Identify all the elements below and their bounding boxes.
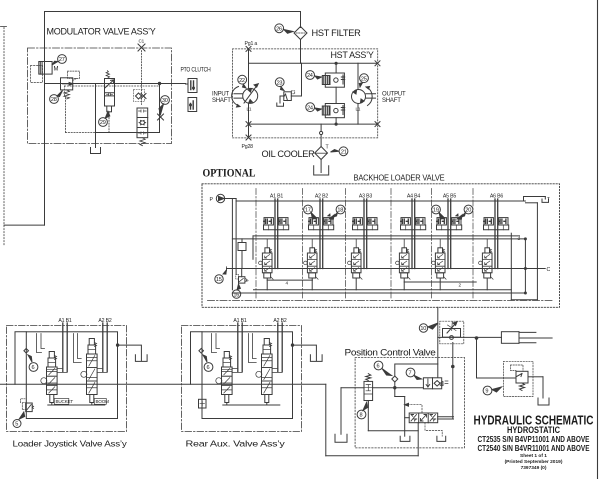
svg-text:7397349 (0): 7397349 (0) bbox=[521, 465, 547, 471]
wire pump feed left vertical bbox=[231, 199, 233, 290]
page right border bbox=[597, 1, 599, 479]
control spool at x=51 bbox=[49, 352, 54, 359]
relief valve 9 bbox=[504, 361, 534, 396]
wire vertical x525 bbox=[524, 239, 526, 293]
svg-text:HST FILTER: HST FILTER bbox=[312, 28, 361, 39]
wire to tank loader bbox=[118, 345, 142, 360]
svg-text:A2 B2: A2 B2 bbox=[98, 318, 111, 324]
tank left bbox=[340, 388, 342, 435]
item 7 callout bbox=[406, 368, 415, 377]
tank rear aux right bbox=[310, 355, 322, 362]
loader joystick valve assembly box bbox=[7, 326, 127, 432]
svg-text:A3 B3: A3 B3 bbox=[359, 194, 372, 200]
svg-text:24: 24 bbox=[307, 73, 313, 79]
svg-text:C1: C1 bbox=[139, 39, 145, 44]
item 6 callout bbox=[374, 361, 383, 370]
main wire y83 bbox=[45, 83, 186, 85]
wire feed to cylinder bbox=[438, 336, 502, 338]
svg-text:A1 B1: A1 B1 bbox=[270, 194, 283, 200]
spool at x=356 bbox=[354, 248, 359, 253]
svg-text:BOOM: BOOM bbox=[96, 399, 110, 404]
filter diamond bbox=[294, 27, 307, 40]
spool at x=404 bbox=[402, 248, 407, 253]
input pump 22 bbox=[243, 88, 258, 103]
tank under main valve right bbox=[437, 436, 446, 441]
valve 23 bbox=[275, 78, 284, 87]
svg-text:A1 B1: A1 B1 bbox=[58, 318, 71, 324]
svg-text:M: M bbox=[54, 67, 59, 73]
svg-text:A4 B4: A4 B4 bbox=[407, 194, 420, 200]
svg-text:(Printed September 2019): (Printed September 2019) bbox=[505, 459, 563, 465]
wire pressure rail y200 bbox=[236, 200, 525, 202]
frame wire to page left bbox=[4, 224, 44, 226]
dashed pilot top bbox=[405, 405, 422, 413]
port line A2 rear aux bbox=[277, 323, 279, 372]
port line B2 loader bbox=[106, 323, 108, 372]
item 8 callout bbox=[357, 410, 366, 419]
valve 30 bbox=[137, 108, 148, 138]
right pilot double line bbox=[438, 416, 454, 418]
item 18 bbox=[336, 205, 345, 214]
wire pilot line y387 bbox=[341, 387, 364, 389]
wire feed to flow control bbox=[437, 307, 439, 377]
port line B1 rear aux bbox=[241, 323, 243, 372]
wire rail y289 bbox=[254, 289, 512, 291]
wires around 7 bbox=[452, 343, 454, 367]
dotted collector line bbox=[66, 132, 96, 134]
wire to tank rear aux bbox=[293, 345, 317, 360]
port line A2 loader bbox=[102, 323, 104, 372]
left dotted vertical line bbox=[3, 28, 5, 246]
svg-text:17: 17 bbox=[305, 208, 311, 214]
circle 30 bbox=[161, 96, 170, 105]
circle 28 bbox=[50, 95, 59, 104]
svg-text:T: T bbox=[326, 145, 330, 151]
circle 26 bbox=[275, 24, 284, 33]
port line A1 rear aux bbox=[237, 323, 239, 372]
check valve block top 24 bbox=[306, 71, 315, 80]
tank under main valve left bbox=[400, 436, 410, 441]
svg-text:T: T bbox=[547, 196, 550, 201]
wire pump feed second vertical bbox=[235, 199, 237, 275]
svg-text:P: P bbox=[210, 197, 214, 203]
svg-text:6: 6 bbox=[207, 365, 210, 371]
svg-text:Sheet 1 of 1: Sheet 1 of 1 bbox=[520, 453, 547, 459]
svg-text:28: 28 bbox=[51, 97, 57, 103]
item 17 bbox=[304, 205, 313, 214]
spool at x=487 bbox=[485, 248, 490, 253]
drain wire + tank bbox=[95, 84, 97, 148]
tank left of position valve bbox=[335, 434, 347, 442]
svg-text:MODULATOR VALVE ASS’Y: MODULATOR VALVE ASS’Y bbox=[47, 27, 157, 38]
valve 5 pressure reducing bbox=[22, 403, 25, 410]
svg-text:Rear Aux. Valve Ass’y: Rear Aux. Valve Ass’y bbox=[186, 440, 286, 449]
item 6 callout rear aux bbox=[204, 363, 213, 372]
svg-text:20: 20 bbox=[465, 208, 471, 214]
flow control valve 10 bbox=[440, 321, 464, 344]
svg-text:21: 21 bbox=[341, 150, 347, 156]
port line B2 rear aux bbox=[281, 323, 283, 372]
port line B1 loader bbox=[66, 323, 68, 372]
inner dotted pilot box bbox=[65, 85, 160, 87]
diamond + X near valve30 bbox=[134, 90, 145, 102]
spool at x=312 bbox=[310, 248, 315, 253]
control spool at x=91 bbox=[89, 339, 94, 346]
svg-text:24: 24 bbox=[307, 105, 313, 111]
svg-text:23: 23 bbox=[277, 80, 283, 86]
svg-text:6: 6 bbox=[377, 364, 380, 370]
svg-text:Pg28: Pg28 bbox=[242, 144, 254, 150]
svg-text:26: 26 bbox=[276, 27, 282, 33]
motor M bbox=[39, 62, 52, 75]
svg-text:6: 6 bbox=[32, 365, 35, 371]
valve 16 pressure reducing bbox=[239, 277, 245, 283]
valve 29 bbox=[106, 71, 109, 79]
svg-text:18: 18 bbox=[337, 208, 343, 214]
dashed drain right bbox=[425, 423, 442, 437]
main spool valve bbox=[409, 413, 438, 423]
svg-text:10: 10 bbox=[420, 326, 426, 332]
HST internal wires bbox=[248, 49, 250, 89]
svg-text:A1 B1: A1 B1 bbox=[233, 318, 246, 324]
valve 7 two-position bbox=[423, 378, 441, 389]
svg-text:OIL COOLER: OIL COOLER bbox=[262, 149, 315, 160]
left tick bbox=[1, 26, 7, 28]
wire T drain down right side bbox=[526, 202, 538, 204]
plug box rear aux bbox=[199, 399, 207, 408]
svg-text:15: 15 bbox=[216, 277, 222, 283]
orifice box bbox=[238, 243, 246, 251]
svg-text:8: 8 bbox=[360, 413, 363, 419]
svg-text:25: 25 bbox=[361, 76, 367, 82]
svg-text:L1: L1 bbox=[247, 107, 252, 112]
port line A1 loader bbox=[62, 323, 64, 372]
valve8 drain bbox=[367, 401, 369, 431]
item 6 callout loader bbox=[29, 363, 38, 372]
port X marks bbox=[246, 46, 251, 51]
spool at x=440 bbox=[438, 248, 443, 253]
svg-text:Position Control Valve: Position Control Valve bbox=[345, 348, 436, 359]
reducing valve 28 bbox=[61, 78, 73, 90]
tank T top right bbox=[542, 199, 549, 202]
dotted pilot line C1 bbox=[141, 51, 143, 105]
svg-text:22: 22 bbox=[239, 78, 245, 84]
control spool at x=226 bbox=[224, 352, 229, 359]
X plug C1 bbox=[138, 44, 145, 51]
svg-text:L1: L1 bbox=[356, 107, 361, 112]
left port wiring bbox=[405, 417, 410, 419]
item 5 callout bbox=[13, 420, 21, 428]
svg-text:4: 4 bbox=[286, 281, 289, 286]
wire rail y235 bbox=[253, 235, 520, 237]
svg-text:CT2540 S/N B4VR11001 AND ABOVE: CT2540 S/N B4VR11001 AND ABOVE bbox=[478, 443, 590, 453]
item 9 callout bbox=[483, 386, 492, 395]
svg-text:Loader Joystick Valve Ass’y: Loader Joystick Valve Ass’y bbox=[13, 440, 128, 449]
svg-text:INPUT: INPUT bbox=[212, 92, 230, 98]
svg-text:19: 19 bbox=[433, 208, 439, 214]
circle 27 bbox=[58, 55, 67, 64]
check valve block bottom 24 bbox=[306, 103, 315, 112]
rear aux inner housing box bbox=[202, 332, 293, 419]
tank loader right bbox=[135, 355, 147, 362]
svg-text:BACKHOE LOADER VALVE: BACKHOE LOADER VALVE bbox=[354, 174, 446, 183]
dashed box left of motor bbox=[31, 66, 43, 83]
svg-text:OUTPUT: OUTPUT bbox=[382, 92, 406, 98]
wire x159 bbox=[159, 84, 161, 133]
svg-text:27: 27 bbox=[59, 57, 65, 63]
rear aux valve assembly box bbox=[182, 326, 302, 432]
wire C rail y268 bbox=[227, 268, 546, 270]
item 20 bbox=[464, 205, 473, 214]
svg-text:SHAFT: SHAFT bbox=[382, 98, 401, 104]
svg-text:C: C bbox=[547, 267, 551, 273]
output motor 25 bbox=[352, 90, 366, 104]
check valve 6 diamond rear aux bbox=[199, 349, 204, 354]
item 15 callout bbox=[215, 275, 223, 283]
svg-text:A2 B2: A2 B2 bbox=[315, 194, 328, 200]
svg-text:PTO CLUTCH: PTO CLUTCH bbox=[181, 68, 211, 74]
top frame wire bbox=[45, 12, 301, 226]
control spool at x=266 bbox=[264, 339, 269, 346]
check valve 6 diamond bbox=[392, 376, 398, 382]
wire feed loop from main line bbox=[325, 384, 327, 456]
wire T port top right bbox=[524, 196, 546, 198]
svg-text:BUCKET: BUCKET bbox=[56, 399, 74, 404]
svg-text:5: 5 bbox=[15, 422, 18, 428]
item 16 callout bbox=[232, 290, 240, 298]
svg-text:A6 B6: A6 B6 bbox=[490, 194, 503, 200]
loader inner housing box bbox=[26, 332, 117, 419]
wire filter down bbox=[300, 40, 302, 64]
wire tank rail y292 bbox=[232, 292, 525, 294]
svg-text:A5 B5: A5 B5 bbox=[443, 194, 456, 200]
svg-text:HST ASS’Y: HST ASS’Y bbox=[331, 50, 375, 61]
svg-text:SHAFT: SHAFT bbox=[212, 98, 231, 104]
tank under relief 9 bbox=[538, 398, 549, 405]
item 19 bbox=[432, 205, 441, 214]
check valve 6 diamond loader bbox=[24, 349, 29, 354]
wire main supply line y384 bbox=[1, 383, 326, 385]
svg-text:7: 7 bbox=[409, 371, 412, 377]
svg-text:9: 9 bbox=[485, 389, 488, 395]
item 10 callout bbox=[419, 324, 427, 332]
spool at x=267 bbox=[265, 248, 270, 253]
cylinder bbox=[501, 332, 519, 344]
circle 29 bbox=[99, 118, 108, 127]
wire node to relief 9 bbox=[476, 338, 478, 378]
svg-text:2: 2 bbox=[459, 282, 462, 287]
section dividers bbox=[255, 189, 257, 299]
modulator dash-dot box bbox=[28, 48, 172, 144]
svg-text:30: 30 bbox=[162, 98, 168, 104]
svg-text:29: 29 bbox=[100, 120, 106, 126]
svg-text:OPTIONAL: OPTIONAL bbox=[203, 166, 256, 180]
valve 8 sequence bbox=[366, 374, 371, 381]
svg-text:16: 16 bbox=[233, 292, 239, 298]
svg-text:A2 B2: A2 B2 bbox=[273, 318, 286, 324]
wire rail y238 bbox=[232, 238, 525, 240]
